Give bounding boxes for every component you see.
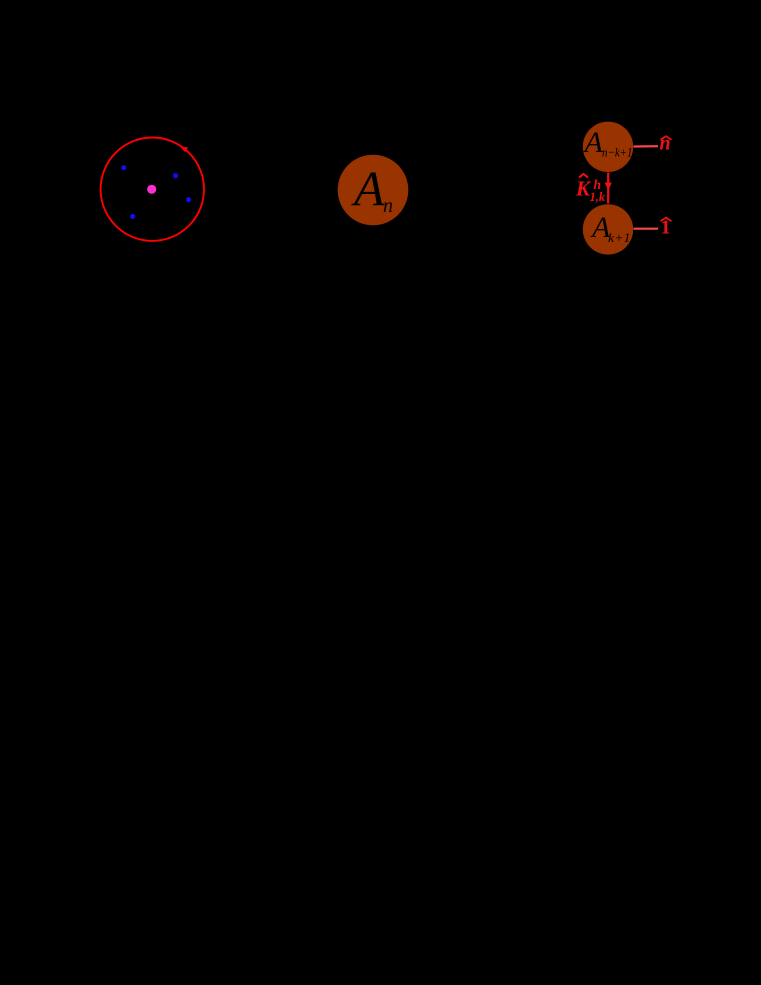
svg-text:A: A <box>583 126 604 159</box>
svg-text:A: A <box>351 161 385 217</box>
svg-text:1,k: 1,k <box>590 190 606 204</box>
svg-text:n: n <box>383 195 393 217</box>
svg-text:n−k+1: n−k+1 <box>602 144 633 159</box>
svg-text:k+1: k+1 <box>608 230 631 245</box>
